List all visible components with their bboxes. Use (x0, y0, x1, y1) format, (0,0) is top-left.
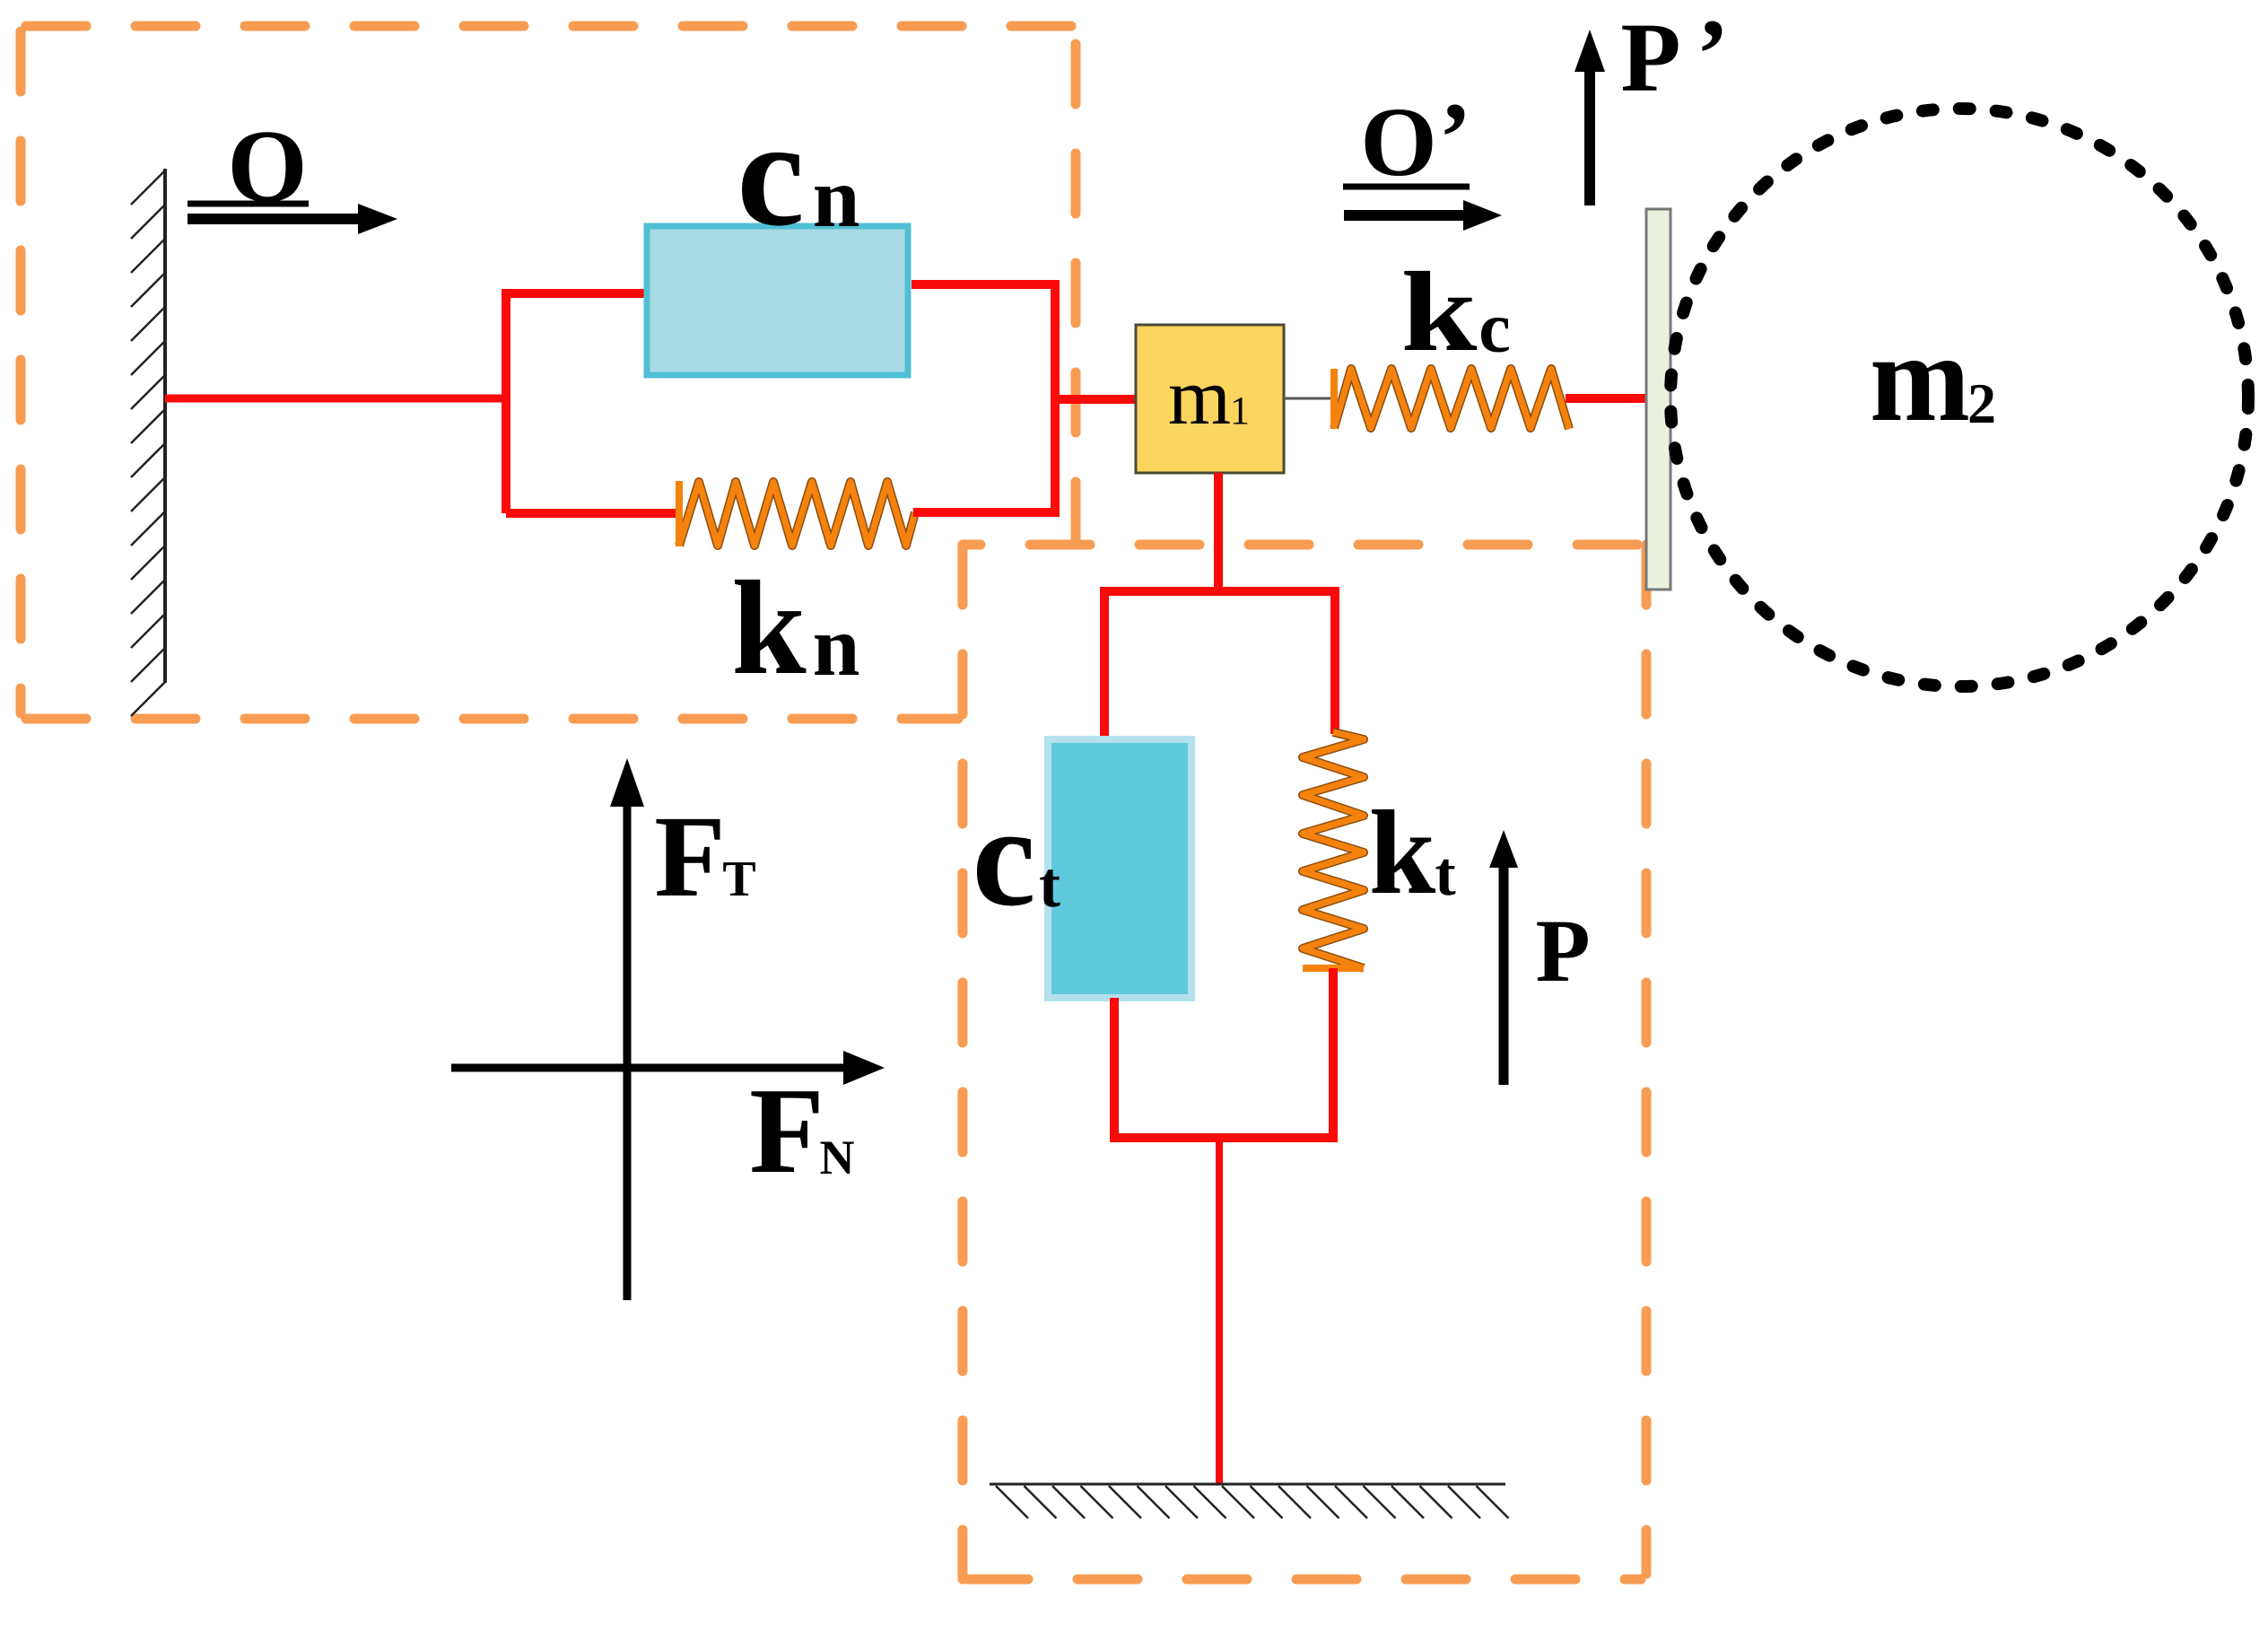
svg-text:m: m (1870, 309, 1970, 448)
spring k_c (1334, 369, 1569, 429)
svg-text:N: N (820, 1131, 855, 1184)
svg-text:n: n (813, 150, 860, 245)
wire bottom U connector (1110, 1133, 1338, 1142)
wire wall to junction (165, 395, 506, 403)
spring k_t (1303, 732, 1364, 968)
svg-text:’: ’ (1697, 0, 1730, 109)
svg-text:c: c (1479, 289, 1511, 368)
svg-text:k: k (1369, 786, 1436, 919)
svg-text:t: t (1435, 840, 1455, 909)
wire m1 bottom (1214, 473, 1223, 596)
svg-text:m: m (1168, 353, 1231, 441)
wire damper c_t bottom (1110, 998, 1119, 1142)
axis F_T (vertical) (610, 758, 644, 1300)
arrow P (1489, 830, 1518, 1085)
svg-text:t: t (1039, 849, 1060, 921)
svg-text:F: F (654, 792, 725, 922)
svg-text:P: P (1620, 3, 1680, 112)
svg-text:k: k (1401, 249, 1478, 375)
svg-text:2: 2 (1967, 371, 1996, 435)
spring k_c start tick (1330, 369, 1338, 429)
wire left junction vertical (502, 293, 510, 513)
svg-text:T: T (722, 852, 755, 907)
contact plate (1646, 209, 1670, 590)
wire T-branch horizontal (1103, 587, 1335, 596)
arrow P' (1575, 30, 1605, 205)
underline of O' (1343, 184, 1470, 190)
svg-text:k: k (731, 554, 807, 703)
svg-text:n: n (813, 598, 860, 694)
wire right junction vertical (1051, 280, 1060, 512)
mass m2 (dashed circle) (1670, 109, 2248, 686)
ground line (990, 1483, 1505, 1486)
arrow O (direction of motion) (188, 204, 397, 234)
wall hatching (131, 170, 165, 716)
wire left drop to damper c_t (1100, 587, 1109, 738)
svg-text:P: P (1535, 901, 1590, 1000)
spring k_n (679, 482, 915, 546)
svg-text:F: F (749, 1062, 824, 1199)
wire top branch left (502, 289, 646, 298)
wire spring k_c to contact plate (1566, 394, 1649, 403)
wire bottom branch right (913, 508, 1060, 517)
dashed region box tangential (bottom) (963, 545, 1646, 1579)
svg-text:1: 1 (1230, 389, 1250, 432)
mass m1 (1136, 325, 1284, 473)
arrow O' (1344, 200, 1502, 231)
damper c_n (647, 226, 908, 375)
spring k_t end tick (1303, 965, 1364, 972)
wire junction to m1 (1055, 395, 1136, 404)
underline of O (188, 201, 309, 207)
axis F_N (horizontal) (451, 1051, 885, 1085)
svg-text:’: ’ (1439, 83, 1472, 192)
svg-text:O: O (1360, 87, 1437, 197)
gray link m1 to spring k_c (1284, 398, 1334, 400)
svg-text:c: c (737, 89, 804, 258)
svg-text:c: c (972, 776, 1035, 936)
dashed region box normal (top-left) (21, 26, 1076, 719)
ground hatching (996, 1486, 1509, 1518)
wire top branch right (912, 280, 1060, 289)
spring k_n start tick (676, 481, 683, 546)
wall (left fixed support) (163, 169, 167, 683)
wire bottom branch left (506, 509, 679, 518)
damper c_t (1048, 739, 1191, 998)
wire spring k_t bottom (1329, 968, 1338, 1142)
wire to ground (1216, 1138, 1223, 1484)
wire right drop to spring k_t (1330, 587, 1339, 734)
